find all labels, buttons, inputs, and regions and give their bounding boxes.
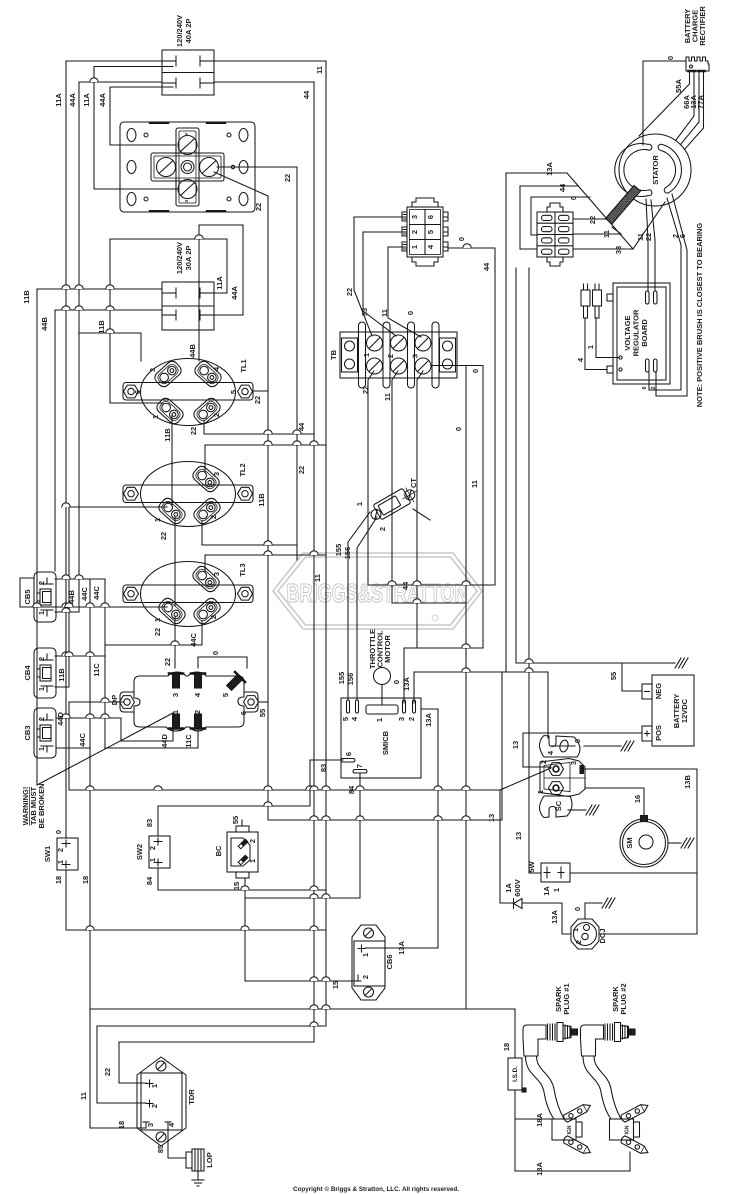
svg-text:44D: 44D <box>56 712 65 726</box>
svg-text:1: 1 <box>151 415 160 419</box>
CON6 pin numbers <box>410 215 435 249</box>
svg-text:22: 22 <box>189 427 198 435</box>
TL2 pin numbers and name <box>153 463 247 522</box>
switch SW2 <box>149 836 170 868</box>
svg-text:0: 0 <box>573 907 582 911</box>
svg-text:11C: 11C <box>92 663 101 677</box>
svg-text:BE BROKEN: BE BROKEN <box>37 783 46 828</box>
diode 1A 600V <box>514 899 523 909</box>
connector BC <box>227 826 258 878</box>
svg-text:TL2: TL2 <box>238 463 247 476</box>
wire 11 to TDR-2 <box>97 1026 326 1103</box>
twist-lock receptacle TL1 <box>123 359 253 426</box>
svg-text:44: 44 <box>297 422 306 431</box>
LOP label <box>205 1152 214 1167</box>
svg-text:TL3: TL3 <box>238 563 247 576</box>
svg-text:3: 3 <box>146 1123 155 1127</box>
resistor 5W <box>541 863 570 882</box>
wire 1 regulator plug <box>596 318 618 358</box>
svg-text:600V: 600V <box>513 879 522 897</box>
wire TB-1 bottom down <box>368 371 374 585</box>
CB6 labels <box>361 953 394 979</box>
svg-text:44C: 44C <box>92 586 101 600</box>
svg-text:0: 0 <box>457 237 466 241</box>
svg-text:22: 22 <box>159 532 168 540</box>
svg-text:3: 3 <box>569 761 578 765</box>
wire 11A from CB1 pole1 left <box>66 61 162 838</box>
svg-text:11B: 11B <box>97 320 106 334</box>
svg-text:44: 44 <box>482 262 491 271</box>
svg-text:DP: DP <box>110 695 119 705</box>
svg-text:NOTE: POSITIVE BRUSH IS CLOSES: NOTE: POSITIVE BRUSH IS CLOSEST TO BEARI… <box>695 223 704 408</box>
svg-text:7: 7 <box>355 764 364 768</box>
svg-text:83: 83 <box>319 764 328 772</box>
svg-text:18: 18 <box>117 1121 126 1129</box>
wire 85 TDR-4 to LOP <box>168 1128 186 1158</box>
svg-text:2: 2 <box>386 354 395 358</box>
svg-text:RECTIFIER: RECTIFIER <box>698 6 707 46</box>
wire 22 TL3-1 down to DP-3 <box>174 617 176 668</box>
svg-text:44C: 44C <box>80 587 89 601</box>
svg-text:CB4: CB4 <box>23 665 32 681</box>
svg-text:1: 1 <box>148 858 157 862</box>
diode labels <box>504 879 522 897</box>
TDR labels <box>146 1084 196 1127</box>
wire 11 from CB1 pole1 right <box>214 61 326 1026</box>
svg-text:44A: 44A <box>98 93 107 107</box>
svg-text:11A: 11A <box>54 93 63 107</box>
TL1 pin numbers and name <box>133 359 248 419</box>
svg-text:44C: 44C <box>189 633 198 647</box>
DP pin numbers and name <box>110 692 248 715</box>
wire 11B TL2-1 left to CB4 <box>55 507 167 687</box>
warning leader line <box>37 713 173 785</box>
svg-text:X: X <box>184 199 189 202</box>
note text <box>695 223 704 408</box>
wire 0 bus mid right <box>515 268 517 663</box>
twist-lock receptacle TL2 <box>123 462 253 527</box>
wire 15 BC bottom <box>245 773 360 981</box>
wire 18 to TDR-3 <box>90 1127 146 1129</box>
terminal block TB <box>340 322 457 388</box>
svg-text:I.S.D.: I.S.D. <box>512 1066 519 1082</box>
svg-text:4: 4 <box>350 716 359 721</box>
svg-text:44A: 44A <box>68 93 77 107</box>
regulator plug connector <box>581 284 602 318</box>
svg-text:11C: 11C <box>184 734 193 748</box>
svg-text:22: 22 <box>254 203 263 211</box>
svg-text:84: 84 <box>347 785 356 794</box>
svg-text:44B: 44B <box>67 590 76 604</box>
svg-text:22: 22 <box>588 216 597 224</box>
svg-text:CB6: CB6 <box>385 954 394 969</box>
wire 22 diagonal from E screw <box>214 172 268 820</box>
svg-text:5W: 5W <box>527 860 536 872</box>
wire 18 to ISD <box>90 1009 515 1058</box>
svg-text:15: 15 <box>232 882 241 890</box>
svg-text:11: 11 <box>470 480 479 488</box>
I.S.D. label <box>512 1066 519 1082</box>
wire 11 CON8 to brush <box>573 227 621 234</box>
svg-text:Y: Y <box>184 132 189 135</box>
CT labels <box>355 478 418 532</box>
svg-text:1: 1 <box>571 928 580 932</box>
svg-text:2: 2 <box>539 760 548 764</box>
svg-text:0: 0 <box>392 680 401 684</box>
svg-text:22: 22 <box>283 174 292 182</box>
svg-text:2: 2 <box>361 975 370 979</box>
wire 16 SC to SM <box>586 788 644 815</box>
IGN 2 label <box>625 1125 631 1134</box>
battery charge rectifier label <box>683 6 707 46</box>
svg-text:4: 4 <box>546 750 555 755</box>
svg-text:40A 2P: 40A 2P <box>184 19 193 44</box>
svg-text:2: 2 <box>574 940 583 944</box>
svg-text:6: 6 <box>426 215 435 219</box>
circuit breaker CB2 120/240V 30A 2P <box>162 282 214 330</box>
svg-text:NEG: NEG <box>654 683 663 699</box>
svg-text:3: 3 <box>212 472 221 476</box>
svg-text:13: 13 <box>487 814 496 822</box>
svg-text:1A: 1A <box>504 883 513 893</box>
ignition shutdown device I.S.D. <box>508 1058 526 1092</box>
svg-text:85: 85 <box>156 1145 165 1153</box>
wire 13 battery POS to SC <box>523 733 642 767</box>
svg-text:5: 5 <box>229 390 238 394</box>
wire 2 stator right down <box>649 198 681 390</box>
wire DP left nut down <box>69 702 124 790</box>
svg-text:SW2: SW2 <box>135 844 144 860</box>
wire 0 CON8 left <box>531 197 590 235</box>
svg-text:33: 33 <box>614 246 623 254</box>
wire 22 stator to regulator <box>651 200 655 291</box>
svg-text:1: 1 <box>248 859 257 863</box>
svg-text:SMICB: SMICB <box>381 730 390 755</box>
wire 44D CB3-2 to DP-1 <box>56 718 173 741</box>
svg-text:11B: 11B <box>57 668 66 682</box>
svg-text:3: 3 <box>171 693 180 697</box>
throttle control motor <box>374 668 391 706</box>
connector CON6 (6-pin) <box>402 198 448 266</box>
IGN 1 label <box>567 1125 573 1134</box>
svg-text:13A: 13A <box>402 677 411 691</box>
circuit breaker CB1 120/240V 40A 2P <box>162 50 214 95</box>
svg-text:1: 1 <box>153 518 162 522</box>
wire 0 SC-4 to ground <box>552 745 614 747</box>
twist-lock receptacle TL3 <box>123 562 253 627</box>
TL3 pin numbers and name <box>153 563 247 622</box>
battery <box>642 675 694 746</box>
wire 44 from CB1 pole2 right <box>214 82 314 1042</box>
svg-text:1: 1 <box>150 1084 159 1088</box>
wire 44C CB5-2 down <box>55 579 105 748</box>
svg-text:2: 2 <box>56 848 65 852</box>
voltage regulator board <box>607 283 670 384</box>
voltage regulator board label <box>623 309 649 356</box>
svg-text:0: 0 <box>211 651 220 655</box>
svg-text:156: 156 <box>346 673 355 686</box>
svg-text:11B: 11B <box>22 290 31 304</box>
svg-text:2: 2 <box>150 1104 159 1108</box>
SMICB labels <box>341 716 416 768</box>
wire 11 stator to regulator <box>646 199 648 291</box>
BC labels <box>214 839 257 863</box>
SC labels <box>536 750 578 811</box>
svg-text:3: 3 <box>410 215 419 219</box>
wire hops <box>33 78 533 1026</box>
svg-text:1A: 1A <box>542 886 551 896</box>
svg-text:2: 2 <box>37 657 46 661</box>
wire 0 DCJ to ground <box>585 903 595 919</box>
ignition coil IGN 1 <box>552 1102 592 1156</box>
wire 13A SMICB right to CB6-1 <box>365 709 438 948</box>
wire 11 CON6 to TB-3 <box>388 247 421 337</box>
spark plug 1 <box>523 1023 578 1057</box>
svg-text:11: 11 <box>602 230 611 238</box>
svg-text:1: 1 <box>37 747 46 751</box>
svg-text:120/240V: 120/240V <box>175 15 184 47</box>
svg-text:6: 6 <box>239 711 248 715</box>
svg-text:55: 55 <box>231 816 240 824</box>
svg-text:TB: TB <box>329 349 338 360</box>
svg-text:0: 0 <box>569 196 578 200</box>
svg-text:6: 6 <box>133 390 142 394</box>
svg-text:13: 13 <box>511 741 520 749</box>
label CB1 value 120/240V 40A 2P <box>175 15 193 47</box>
circuit breaker CB3 <box>34 708 56 758</box>
wire 22 CON6 to TB-1 <box>354 217 402 336</box>
wire 66A <box>676 78 694 141</box>
ground at SC-4 <box>614 741 634 751</box>
wire 22 from receptacle E screw <box>217 167 297 560</box>
wire 44 horizontal mid <box>368 584 495 586</box>
receptacle R1 (120/240V outlet) <box>120 122 255 212</box>
throttle control motor label <box>368 629 392 669</box>
starter motor SM <box>620 816 668 868</box>
wire 22 TL2-2 to bus <box>202 521 297 545</box>
svg-text:1: 1 <box>355 502 364 506</box>
receptacle terminal letters Y X <box>184 132 189 202</box>
warning label <box>21 783 46 828</box>
svg-text:2: 2 <box>651 386 657 389</box>
label CB2 value 120/240V 30A 2P <box>175 242 193 274</box>
svg-text:11: 11 <box>383 393 392 401</box>
svg-text:1: 1 <box>536 790 545 794</box>
wire 13A to CON8 <box>506 173 567 672</box>
wire 11A second to receptacle X <box>94 67 179 190</box>
wire 44A from CB1 pole2 left to CB5 <box>55 82 162 612</box>
wire 13A SMICB-2 up <box>414 672 548 738</box>
SM label <box>625 837 634 848</box>
svg-text:44A: 44A <box>230 286 239 300</box>
svg-text:2: 2 <box>193 710 202 714</box>
wire 156 CT to SMICB-4 <box>357 517 377 700</box>
svg-text:2: 2 <box>378 527 387 531</box>
svg-text:2: 2 <box>248 839 257 843</box>
svg-text:6: 6 <box>344 752 353 756</box>
svg-text:11B: 11B <box>163 428 172 442</box>
svg-text:11: 11 <box>313 574 322 582</box>
harness leader diagonal <box>567 173 633 249</box>
wire 18A ISD to IGN1 <box>515 1090 552 1171</box>
low oil pressure switch LOP <box>186 1149 204 1186</box>
svg-text:4: 4 <box>576 357 585 362</box>
battery charge rectifier <box>686 57 709 78</box>
svg-text:15: 15 <box>331 981 340 989</box>
svg-text:13B: 13B <box>683 775 692 789</box>
wire TB-2 bottom down <box>392 371 466 603</box>
svg-text:11: 11 <box>315 66 324 74</box>
svg-text:18A: 18A <box>535 1113 544 1127</box>
svg-text:Copyright © Briggs & Stratton,: Copyright © Briggs & Stratton, LLC. All … <box>293 1185 459 1193</box>
svg-text:6: 6 <box>678 234 687 238</box>
svg-text:155: 155 <box>334 544 343 557</box>
svg-text:SW1: SW1 <box>43 846 52 862</box>
svg-text:156: 156 <box>343 547 352 560</box>
svg-text:0: 0 <box>54 830 63 834</box>
svg-text:MOTOR: MOTOR <box>383 635 392 663</box>
wire 22 to TDR-1 <box>119 1042 314 1083</box>
svg-text:44B: 44B <box>188 344 197 358</box>
svg-text:1: 1 <box>362 353 371 357</box>
ignition coil IGN 2 <box>610 1102 650 1156</box>
svg-text:22: 22 <box>297 466 306 474</box>
spark plug 2 <box>581 1023 636 1057</box>
svg-text:77A: 77A <box>696 95 705 109</box>
svg-text:2: 2 <box>148 846 157 850</box>
svg-text:TL1: TL1 <box>239 359 248 372</box>
svg-text:44C: 44C <box>78 733 87 747</box>
svg-text:83: 83 <box>145 819 154 827</box>
svg-text:18: 18 <box>502 1043 511 1051</box>
svg-text:4: 4 <box>426 244 435 249</box>
svg-text:SC: SC <box>554 800 563 811</box>
svg-text:POS: POS <box>654 725 663 741</box>
circuit breaker CB4 <box>34 648 56 698</box>
svg-text:18A: 18A <box>535 1162 544 1176</box>
ground at SM <box>668 842 674 844</box>
stator label <box>651 155 660 185</box>
svg-text:3: 3 <box>212 572 221 576</box>
svg-text:18: 18 <box>54 876 63 884</box>
svg-text:11A: 11A <box>82 93 91 107</box>
wire 11 TL2-3 to bus <box>205 445 326 471</box>
wire to 5W right <box>570 872 697 874</box>
svg-text:44B: 44B <box>40 317 49 331</box>
wire 13 long horizontal to SC <box>69 768 551 903</box>
switch SW1 <box>57 838 78 870</box>
svg-text:STATOR: STATOR <box>651 155 660 185</box>
circuit breaker CB6 <box>352 925 385 1000</box>
svg-text:4: 4 <box>193 692 202 697</box>
svg-text:SM: SM <box>625 837 634 848</box>
svg-text:44: 44 <box>558 183 567 192</box>
svg-text:2: 2 <box>407 717 416 721</box>
svg-text:2: 2 <box>212 413 221 417</box>
wire 77A <box>685 78 704 149</box>
svg-text:1: 1 <box>586 345 595 349</box>
svg-text:2: 2 <box>37 717 46 721</box>
wire CT right stub <box>413 509 430 520</box>
brush assembly (hatched) <box>606 186 641 225</box>
svg-text:13A: 13A <box>424 713 433 727</box>
wire 33 CON8 to stator <box>573 202 665 249</box>
svg-text:0: 0 <box>573 739 582 743</box>
svg-text:44D: 44D <box>160 734 169 748</box>
wire 11B from CB2 pole1 left <box>37 289 162 785</box>
wire 44A second to receptacle Y <box>110 87 176 145</box>
svg-text:155: 155 <box>337 672 346 685</box>
svg-text:44: 44 <box>302 90 311 99</box>
svg-text:IGN: IGN <box>625 1125 631 1134</box>
DC jack DCJ <box>571 919 599 949</box>
wire 55 battery NEG <box>516 663 668 691</box>
wire 11B bus down to TL1-1 <box>110 239 163 403</box>
svg-text:3: 3 <box>397 717 406 721</box>
wire 11A from CB2 pole1 right to bus <box>110 239 227 293</box>
svg-text:6: 6 <box>642 386 648 389</box>
wire 55 BC top <box>242 820 502 826</box>
wire 44C CB3-1 down <box>56 579 90 1128</box>
ground at battery NEG <box>668 658 688 668</box>
wire 4 regulator plug <box>585 318 607 370</box>
wire bus to 5W <box>529 268 541 873</box>
svg-text:22: 22 <box>103 1068 112 1076</box>
svg-text:3: 3 <box>148 368 157 372</box>
timer relay TDR <box>137 1057 186 1146</box>
wire 44B from CB2 pole2 left <box>55 310 162 571</box>
svg-text:55A: 55A <box>674 79 683 93</box>
svg-text:DCJ: DCJ <box>598 928 607 943</box>
wire 44C TL3-2 left <box>105 621 202 645</box>
svg-text:22: 22 <box>253 396 262 404</box>
svg-text:22: 22 <box>361 386 370 394</box>
svg-text:0: 0 <box>454 427 463 431</box>
svg-text:13A: 13A <box>397 941 406 955</box>
svg-text:16: 16 <box>633 795 642 803</box>
watermark Briggs & Stratton logo <box>273 553 482 629</box>
svg-text:2: 2 <box>209 515 218 519</box>
svg-text:BC: BC <box>214 845 223 856</box>
svg-text:55: 55 <box>258 709 267 717</box>
wire 155 CT to SMICB-5 <box>348 512 370 700</box>
SW2 labels <box>135 844 157 862</box>
wire 0 SMICB-3 up <box>404 648 502 820</box>
svg-text:44: 44 <box>401 581 410 590</box>
wire 11C to DP-2 <box>105 729 198 748</box>
svg-text:1: 1 <box>153 618 162 622</box>
wire 83 SMICB-6 to SW2 <box>158 760 343 836</box>
svg-text:12VDC: 12VDC <box>680 698 689 723</box>
svg-text:1: 1 <box>375 718 384 722</box>
svg-text:13A: 13A <box>550 910 559 924</box>
connector CON8 (8-pin) <box>537 203 573 266</box>
svg-text:1: 1 <box>410 245 419 249</box>
spark plug 2 label <box>611 983 628 1014</box>
wire to TL1-5 nut <box>253 390 268 392</box>
control board SMICB <box>341 698 421 778</box>
wire 84 SW2 bottom <box>158 868 326 890</box>
wire 44A from CB2 pole2 right to TL1-4 <box>199 225 243 361</box>
wire 6 stator right down <box>656 194 687 396</box>
wire 55A rectifier to stator <box>639 78 690 136</box>
svg-text:22: 22 <box>163 658 172 666</box>
wire CB4-2 <box>55 655 105 657</box>
wire 0 DP-4 to DP-5 jumper <box>198 657 247 668</box>
stator <box>615 134 691 206</box>
wire 55 DP right nut <box>258 701 268 703</box>
svg-text:IGN: IGN <box>567 1125 573 1134</box>
